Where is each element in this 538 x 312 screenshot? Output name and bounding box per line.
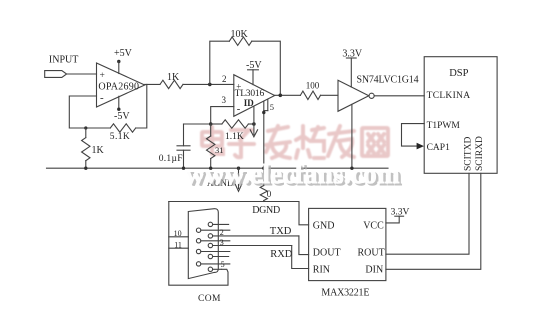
resistor R5 10K feedback xyxy=(210,29,280,95)
svg-text:DGND: DGND xyxy=(252,205,280,216)
resistor R7 1.1K xyxy=(211,120,254,142)
node pin3/R6/R7/C1 junction xyxy=(209,122,213,126)
wire feedback xyxy=(136,84,147,128)
svg-text:T1PWM: T1PWM xyxy=(427,121,461,131)
wire DIN to SCIRXD xyxy=(386,173,481,269)
svg-text:-5V: -5V xyxy=(114,111,130,122)
wire op-amp output xyxy=(145,83,160,85)
svg-text:TXD: TXD xyxy=(270,226,292,237)
op-amp U1 OPA2690 xyxy=(97,63,145,107)
node 10K tap xyxy=(208,83,212,87)
svg-text:TCLKINA: TCLKINA xyxy=(427,91,471,101)
resistor R2 5.1K xyxy=(110,124,135,132)
power 3.3V (inverter) xyxy=(342,48,363,87)
resistor R4 1K (series) xyxy=(160,80,183,88)
svg-text:DSP: DSP xyxy=(449,68,468,79)
wire TXD xyxy=(213,226,309,255)
pin 5 xyxy=(264,99,274,112)
svg-text:www.elecfans.com: www.elecfans.com xyxy=(185,159,400,189)
svg-text:2: 2 xyxy=(222,74,227,84)
wire ROUT to SCITXD xyxy=(386,173,469,254)
svg-text:INPUT: INPUT xyxy=(49,55,78,66)
svg-text:DIN: DIN xyxy=(365,264,383,275)
wire to inverter xyxy=(321,94,339,96)
svg-text:SN74LVC1G14: SN74LVC1G14 xyxy=(357,74,419,85)
svg-text:ROUT: ROUT xyxy=(358,248,385,259)
svg-text:3: 3 xyxy=(222,95,227,105)
power -5V (comparator) xyxy=(246,60,262,85)
wire input to op-amp xyxy=(67,73,97,75)
svg-text:0.1µF: 0.1µF xyxy=(159,154,183,164)
wire pin5 to ground rail xyxy=(263,101,265,168)
svg-text:MAX3221E: MAX3221E xyxy=(321,288,369,299)
resistor R6 31 (to ground) xyxy=(207,124,224,168)
svg-text:RIN: RIN xyxy=(313,264,330,275)
svg-text:1K: 1K xyxy=(167,72,180,83)
arrow to negative rail xyxy=(250,124,257,137)
analog ground rail xyxy=(47,167,389,169)
IC U4 MAX3221E xyxy=(309,208,386,298)
svg-text:RXD: RXD xyxy=(270,249,293,260)
node R7 / latch pin xyxy=(252,122,256,126)
wire to C1 xyxy=(184,123,211,125)
svg-text:VCC: VCC xyxy=(363,220,384,231)
wire inverter output to DSP xyxy=(374,95,424,97)
svg-text:-5V: -5V xyxy=(246,60,262,71)
resistor R8 100 xyxy=(300,91,320,99)
power 3.3V (MAX3221E) xyxy=(386,208,410,223)
svg-text:SCIRXD: SCIRXD xyxy=(475,136,485,171)
power -5V (op-amp) xyxy=(114,96,130,122)
pin stub wires xyxy=(213,223,229,225)
net DGND xyxy=(169,202,309,225)
resistor R3 1K (to ground) xyxy=(85,128,87,138)
svg-text:+: + xyxy=(236,82,241,92)
svg-text:1.1K: 1.1K xyxy=(225,132,244,142)
wire inverting input xyxy=(69,96,110,128)
svg-text:GND: GND xyxy=(313,220,335,231)
wire latch pin xyxy=(253,107,255,124)
wire T1PWM to CAP1 loop xyxy=(402,124,425,150)
svg-text:+5V: +5V xyxy=(114,48,133,59)
IC U5 DSP xyxy=(424,57,497,174)
resistor R9 0 ohm (AGND-DGND) xyxy=(260,168,272,201)
wire inverter ground xyxy=(351,104,353,168)
power +5V (op-amp) xyxy=(114,48,133,74)
svg-text:COM: COM xyxy=(198,294,221,304)
inverter U3 SN74LVC1G14 xyxy=(338,74,419,111)
svg-text:3.3V: 3.3V xyxy=(391,208,410,218)
comparator U2 TL3016 xyxy=(234,75,275,117)
svg-text:-: - xyxy=(237,104,241,115)
svg-text:10K: 10K xyxy=(231,29,249,40)
connector pins xyxy=(208,222,212,226)
svg-text:+: + xyxy=(100,71,105,81)
terminal INPUT xyxy=(45,71,67,78)
wire pin 3 xyxy=(211,107,234,124)
rail junctions xyxy=(84,167,87,170)
svg-text:5: 5 xyxy=(221,260,225,269)
svg-text:ID: ID xyxy=(244,98,255,108)
svg-text:1K: 1K xyxy=(92,145,105,156)
wire RXD xyxy=(213,246,309,269)
capacitor C1 0.1uF xyxy=(159,124,190,168)
ground AGND xyxy=(207,168,242,191)
svg-text:5: 5 xyxy=(270,102,274,112)
svg-text:DOUT: DOUT xyxy=(313,248,341,259)
pin 11 stub xyxy=(169,240,189,249)
svg-text:100: 100 xyxy=(306,81,320,91)
svg-text:CAP1: CAP1 xyxy=(427,143,450,153)
svg-text:OPA2690: OPA2690 xyxy=(98,82,139,93)
svg-text:SCITXD: SCITXD xyxy=(463,137,473,171)
node output/10K xyxy=(279,94,283,98)
svg-text:5.1K: 5.1K xyxy=(110,132,130,142)
connector shell DB9 xyxy=(188,209,218,279)
wire to comparator pin 2 xyxy=(183,83,234,85)
node feedback/1K junction xyxy=(84,126,87,129)
svg-text:31: 31 xyxy=(215,145,224,155)
pin 10 stub xyxy=(169,229,189,238)
wire comparator output xyxy=(275,94,301,96)
connector J1 COM frame xyxy=(169,202,228,286)
svg-text:-: - xyxy=(100,92,104,104)
